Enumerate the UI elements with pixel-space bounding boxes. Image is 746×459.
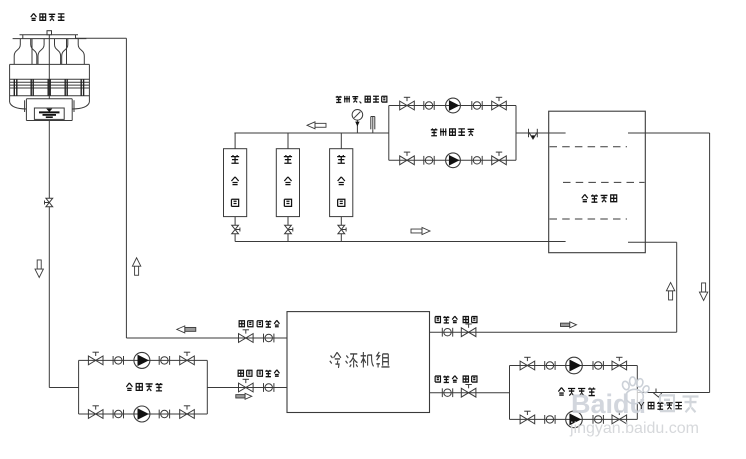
svg-text:Y: Y xyxy=(638,401,645,412)
butterfly valve, chiller lower-right xyxy=(461,385,476,398)
butterfly valve, chiller upper-left xyxy=(239,330,254,343)
pump, chilled top branch xyxy=(566,357,583,374)
butterfly valve, pressure bottom-right xyxy=(492,152,507,165)
label 蝶阀 lower-left xyxy=(238,370,252,376)
label 型过滤器 glyphs xyxy=(648,402,682,409)
svg-text:jingyan.baidu.com: jingyan.baidu.com xyxy=(569,420,699,437)
label Y型过滤器 strainer xyxy=(638,401,645,412)
wire stub bottom, box 3 xyxy=(340,217,342,242)
label 压力输出泵 pressure output pump xyxy=(431,128,474,135)
wire condenser supply y387.5 xyxy=(207,387,287,389)
flex joint, pressure bottom-left xyxy=(424,156,434,165)
flex joint, cooling pump top-left xyxy=(113,356,123,365)
flow arrow left on header xyxy=(307,122,326,129)
butterfly valve, chiller upper-right xyxy=(461,324,476,337)
wire stub top, box 3 xyxy=(340,133,342,149)
pump, pressure bottom branch xyxy=(446,153,461,168)
valve under production box 3 xyxy=(338,225,346,234)
label 冷冻水池 chilled water tank xyxy=(582,194,617,202)
wire tower-top to right riser xyxy=(76,37,127,39)
wire right riser x126 down to condenser return xyxy=(125,38,127,338)
wire tank top-right outlet xyxy=(628,133,710,393)
wire tank bottom-right inlet xyxy=(628,242,677,332)
flex joint, chilled pump top-left xyxy=(545,361,555,370)
label 软接头 upper-left xyxy=(257,320,279,327)
cooling pump group frame xyxy=(79,360,208,414)
label 冷却水泵 cooling water pump xyxy=(126,383,162,391)
flex joint, chiller upper-right xyxy=(442,328,452,337)
valve under production box 2 xyxy=(285,225,293,234)
flex joint, chiller upper-left xyxy=(264,334,274,343)
flex joint, cooling pump top-right xyxy=(159,356,169,365)
flex joint, pressure top-left xyxy=(424,101,434,110)
label 软接头 lower-left xyxy=(257,370,279,377)
butterfly valve, cooling pump bottom-left xyxy=(88,406,103,419)
wire into cooling pump group xyxy=(49,387,78,389)
label 温度计 xyxy=(365,96,387,102)
flex joint, chilled pump top-right xyxy=(593,361,603,370)
label 蝶阀 upper-left xyxy=(239,321,253,327)
wire evaporator outlet y332.2 xyxy=(430,331,677,333)
Y strainer xyxy=(653,389,662,398)
tank water dashes xyxy=(550,147,645,219)
flex joint, cooling pump bottom-right xyxy=(159,410,169,419)
butterfly valve, pressure top-right xyxy=(492,97,507,110)
label 蝶阀 upper-right xyxy=(463,317,477,323)
pressure pump assembly frame xyxy=(389,106,516,161)
production line box 3 生产线 xyxy=(330,149,353,217)
production line box 1 生产线 xyxy=(224,149,247,217)
pump, cooling top branch xyxy=(134,352,150,368)
flow arrow down (from tower) xyxy=(35,260,43,278)
check valve xyxy=(529,129,538,139)
watermark paw logo xyxy=(621,377,650,404)
cooling tower body xyxy=(10,31,90,121)
label 压力表 xyxy=(336,96,359,103)
wire pump assembly to tank xyxy=(516,132,566,134)
chilled pump group frame xyxy=(510,366,638,420)
flex joint, chilled pump bottom-left xyxy=(545,415,555,424)
butterfly valve, chilled pump top-right xyxy=(612,357,627,370)
flow arrow right on return header xyxy=(411,228,430,235)
pressure gauge xyxy=(352,110,363,134)
chiller unit box 冷冻机组 xyxy=(287,312,430,413)
flex joint, chiller lower-right xyxy=(442,388,452,397)
flow arrow down (tank outlet) xyxy=(699,283,707,301)
flow arrow left (condenser return) xyxy=(177,326,196,333)
chilled water tank 冷冻水池 xyxy=(549,111,646,253)
wire stub bottom, box 1 xyxy=(234,217,236,242)
label 生产线 2 xyxy=(284,155,292,206)
flex joint, chiller lower-left xyxy=(264,383,274,392)
flow arrow right (to tank) xyxy=(561,322,577,328)
thermometer xyxy=(371,117,375,134)
label 生产线 1 xyxy=(231,155,239,206)
butterfly valve, pressure bottom-left xyxy=(400,152,415,165)
wire stub top, box 2 xyxy=(287,133,289,149)
butterfly valve, cooling pump top-right xyxy=(180,352,195,365)
butterfly valve, chiller lower-left xyxy=(239,379,254,392)
flex joint, cooling pump bottom-left xyxy=(113,410,123,419)
wire pump suction from tank riser xyxy=(637,392,709,394)
svg-text:Baidu: Baidu xyxy=(571,389,646,419)
wire stub top, box 1 xyxy=(234,133,236,149)
butterfly valve, cooling pump top-left xyxy=(88,352,103,365)
butterfly valve, chilled pump bottom-right xyxy=(612,411,627,424)
flow arrow right (into chiller) xyxy=(236,393,252,399)
flow arrow up (to tower) xyxy=(132,258,140,276)
flex joint, pressure top-right xyxy=(472,101,482,110)
comma 、 xyxy=(360,102,362,104)
butterfly valve, chilled pump bottom-left xyxy=(520,411,535,424)
valve on tower down-pipe xyxy=(45,198,53,207)
label 软接头 upper-right xyxy=(435,316,457,323)
pump, cooling bottom branch xyxy=(134,406,150,422)
label 蝶阀 lower-right xyxy=(463,376,477,382)
valve under production box 1 xyxy=(232,225,240,234)
production line box 2 生产线 xyxy=(276,149,299,217)
pump, chilled bottom branch xyxy=(566,411,583,428)
wire condenser return y338 xyxy=(126,337,287,339)
label cooling-tower 冷却水塔 xyxy=(31,13,65,20)
flex joint, pressure bottom-right xyxy=(472,156,482,165)
flow arrow up (into tank) xyxy=(666,282,674,300)
wire production return header y241.5 xyxy=(235,241,565,243)
wire stub bottom, box 2 xyxy=(287,217,289,242)
label 冷冻机组 chiller unit xyxy=(330,352,390,368)
label 冷冻水泵 chilled water pump xyxy=(558,388,595,396)
pump, pressure top branch xyxy=(446,98,461,113)
butterfly valve, chilled pump top-left xyxy=(520,357,535,370)
watermark 经验 glyphs xyxy=(660,395,699,412)
wire tower basin down-pipe xyxy=(48,121,50,388)
wire top header y133 xyxy=(234,132,388,134)
butterfly valve, cooling pump bottom-right xyxy=(180,406,195,419)
butterfly valve, pressure top-left xyxy=(400,97,415,110)
label 生产线 3 xyxy=(337,155,345,206)
wire evaporator inlet y392.7 xyxy=(430,392,510,394)
flex joint, chilled pump bottom-right xyxy=(593,415,603,424)
label 软接头 lower-right xyxy=(435,376,457,383)
